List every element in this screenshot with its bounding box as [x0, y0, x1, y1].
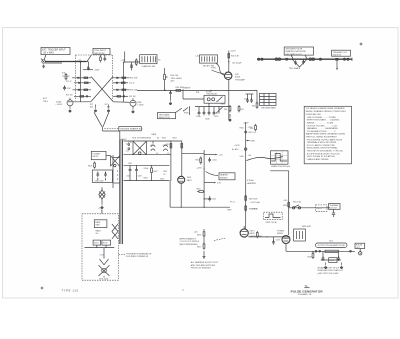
- svg-text:THYRATRON GENERATOR: THYRATRON GENERATOR: [126, 253, 152, 256]
- svg-text:R693: R693: [308, 257, 312, 259]
- svg-text:THERMAL: THERMAL: [329, 204, 338, 207]
- test point TP667: [232, 148, 247, 151]
- svg-text:T601 6.3V WINDINGS: T601 6.3V WINDINGS: [132, 138, 152, 140]
- center tick: [183, 290, 184, 291]
- svg-text:+225V: +225V: [230, 51, 236, 53]
- svg-text:R666: R666: [240, 128, 244, 130]
- +225V node label: [197, 168, 205, 170]
- label box C output multi: [104, 127, 143, 131]
- capacitor C601a: [208, 158, 216, 163]
- svg-text:TP691: TP691: [252, 209, 258, 211]
- svg-text:+100V: +100V: [243, 123, 249, 125]
- primary feed wire: [113, 155, 120, 188]
- svg-text:6DK6: 6DK6: [235, 77, 241, 79]
- svg-text:R695: R695: [330, 260, 335, 262]
- svg-text:C60C: C60C: [214, 116, 219, 118]
- resistor R44 on wire: [176, 87, 185, 91]
- svg-text:R607: R607: [154, 171, 158, 173]
- svg-text:C601 C602: C601 C602: [95, 180, 104, 182]
- wire into relay box: [182, 89, 204, 99]
- svg-text:REGULATED WITH EXTERNAL: REGULATED WITH EXTERNAL: [307, 147, 339, 150]
- resistor R607: [151, 165, 158, 180]
- svg-text:C609: C609: [160, 179, 164, 181]
- cathode spade right tube: [132, 106, 135, 113]
- resistor R676: [197, 230, 205, 237]
- capacitor C11 left: [63, 86, 66, 91]
- svg-text:PULSE AMPLITUDE . . . . . . 2: PULSE AMPLITUDE . . . . . . 2: [307, 130, 336, 133]
- svg-text:R601: R601: [195, 159, 199, 161]
- capacitor C43: [169, 90, 172, 104]
- wire: right plate line: [123, 66, 125, 102]
- svg-text:VOLTAGES & WAVEFORMS OBTAINED: VOLTAGES & WAVEFORMS OBTAINED: [306, 107, 345, 110]
- trig level pot R40: [164, 68, 183, 91]
- inductor L45: [228, 61, 242, 65]
- capacitor C608: [135, 165, 141, 180]
- resistor R63: [250, 124, 256, 131]
- choke L602: [163, 145, 168, 151]
- cathode spade left tube: [69, 106, 72, 112]
- svg-text:R31 470K: R31 470K: [130, 78, 138, 80]
- multivib bottom labels: [90, 106, 110, 108]
- svg-text:WERE OBTAINED UNDER CONDITIONS: WERE OBTAINED UNDER CONDITIONS: [306, 110, 347, 113]
- svg-text:C608: C608: [138, 176, 142, 178]
- svg-text:SCOPE WITH A 53/54 K PLUG-IN: SCOPE WITH A 53/54 K PLUG-IN: [307, 152, 340, 155]
- svg-text:V701 2D21: V701 2D21: [99, 279, 108, 281]
- svg-text:C605: C605: [212, 199, 216, 201]
- coax wire: [45, 62, 86, 64]
- label V601: [187, 177, 193, 182]
- svg-text:C609: C609: [163, 171, 167, 173]
- svg-text:R23 220K: R23 220K: [63, 88, 71, 90]
- svg-text:R25 10K: R25 10K: [66, 95, 73, 97]
- HV rail verticals: [171, 141, 182, 182]
- svg-text:+225V: +225V: [197, 168, 203, 170]
- svg-text:R603: R603: [173, 138, 177, 140]
- row 2 left: resistor R22, cap C22: [66, 81, 91, 84]
- svg-text:RATE: RATE: [95, 221, 101, 224]
- capacitor C667: [244, 130, 255, 135]
- svg-text:C678: C678: [276, 239, 280, 241]
- text block supply note: [191, 261, 219, 269]
- svg-text:6.3V AC: 6.3V AC: [247, 179, 255, 182]
- svg-text:SEE PARTS LIST: SEE PARTS LIST: [285, 53, 302, 56]
- svg-text:5W: 5W: [166, 144, 169, 146]
- row 1 right: R31 C31: [113, 77, 138, 80]
- wire into core top: [103, 131, 120, 139]
- rate divider network: [195, 107, 229, 121]
- svg-text:UNIT. PROBE IS 10X ATTEN.: UNIT. PROBE IS 10X ATTEN.: [307, 155, 336, 158]
- tube V24B: [113, 98, 136, 106]
- svg-text:SW60: SW60: [221, 104, 226, 106]
- svg-text:R605: R605: [197, 189, 201, 191]
- resistor R674: [245, 204, 259, 211]
- svg-text:CHARGE: CHARGE: [183, 87, 191, 90]
- +225V arrow right: [121, 60, 125, 66]
- svg-text:WAVEFORMS WERE OBTAINED USING: WAVEFORMS WERE OBTAINED USING: [306, 133, 346, 136]
- annotation thyratron: [119, 253, 152, 259]
- texts left of line section: [251, 202, 261, 211]
- svg-text:RISETIME LESS THAN 0.01: RISETIME LESS THAN 0.01: [318, 269, 344, 272]
- svg-text:ADJ: ADJ: [171, 80, 175, 83]
- capacitor C605: [208, 196, 216, 201]
- V converge wires: [94, 112, 109, 131]
- svg-text:R46: R46: [224, 109, 227, 111]
- heater band upper: [124, 138, 182, 155]
- svg-text:C32 47: C32 47: [129, 83, 135, 85]
- series regulator V673: [240, 226, 248, 237]
- svg-text:V24A: V24A: [56, 101, 62, 104]
- svg-text:R21 470K: R21 470K: [62, 76, 70, 78]
- svg-text:C22 47: C22 47: [66, 81, 72, 83]
- svg-text:+225: +225: [77, 60, 81, 62]
- pot R667: [246, 140, 255, 143]
- junction node: [204, 198, 210, 199]
- label C609: [163, 171, 167, 176]
- band labels: [126, 143, 169, 154]
- pointer to heater box: [206, 172, 218, 176]
- plus mark bottom-left: [41, 287, 44, 290]
- svg-text:R602: R602: [162, 138, 166, 140]
- line vertical: [288, 171, 290, 235]
- svg-text:.05: .05: [167, 153, 169, 155]
- svg-text:R667: R667: [251, 140, 256, 142]
- wire delay line to V45: [216, 63, 225, 75]
- cap box J: [92, 170, 112, 182]
- resistor R691: [283, 201, 290, 208]
- svg-text:POWER: POWER: [93, 153, 101, 155]
- svg-text:R701: R701: [94, 243, 99, 245]
- wire box H to primary: [106, 155, 111, 157]
- svg-text:TRIGGER SHAPER B.O.: TRIGGER SHAPER B.O.: [120, 128, 144, 131]
- resistor R11: [62, 73, 67, 81]
- svg-text:+100: +100: [283, 200, 287, 202]
- svg-text:R673 10K: R673 10K: [249, 199, 258, 201]
- svg-text:ALL HEATERS EXCEPT V673: ALL HEATERS EXCEPT V673: [191, 261, 219, 264]
- capacitor C38: [130, 62, 132, 71]
- svg-text:-TRIG 2V/CM: -TRIG 2V/CM: [265, 222, 277, 224]
- resistor R603: [181, 144, 183, 148]
- label V673: [250, 230, 263, 238]
- svg-text:TRIGGER RATE: TRIGGER RATE: [261, 106, 277, 109]
- shield dashed box: [76, 55, 113, 101]
- small box R701: [93, 240, 101, 245]
- connector J1: [41, 59, 45, 64]
- svg-text:SHAPING NETWORK: SHAPING NETWORK: [285, 50, 306, 53]
- resistor R46: [224, 105, 231, 112]
- svg-text:C667 .01: C667 .01: [248, 132, 256, 134]
- title: PULSE GENERATOR: [291, 289, 323, 296]
- row 4 left: resistor R25: [66, 95, 91, 98]
- +415 label: [194, 231, 198, 233]
- ground at connector: [42, 65, 45, 68]
- node: trig in label: [43, 98, 48, 103]
- output network: [272, 237, 280, 245]
- svg-text:TRIG RATE: TRIG RATE: [159, 113, 171, 116]
- svg-text:R26: R26: [90, 106, 93, 108]
- terminal circles: [258, 58, 264, 60]
- resistor R605: [197, 189, 205, 193]
- inline attenuator resistor: [325, 250, 339, 252]
- svg-text:PWR: PWR: [227, 210, 232, 212]
- dashed pilot box: [316, 205, 328, 211]
- svg-text:+225: +225: [121, 60, 125, 62]
- TP labels: [227, 202, 235, 212]
- switch contact cluster: [183, 106, 190, 115]
- +225 arrow: [204, 154, 223, 157]
- svg-text:TYPE 110: TYPE 110: [62, 289, 79, 293]
- type label: [62, 289, 79, 293]
- inline cap C48: [286, 58, 288, 61]
- resistor R601 left: [88, 161, 96, 168]
- resistor R678: [256, 231, 258, 238]
- svg-text:SW601: SW601: [277, 233, 283, 235]
- svg-text:PROVISIONS OUTPUT AMPLITUDE: PROVISIONS OUTPUT AMPLITUDE: [307, 138, 343, 141]
- svg-text:R702: R702: [103, 243, 108, 245]
- svg-text:NETWORK: NETWORK: [94, 53, 105, 55]
- label box G trig out: [332, 50, 351, 56]
- svg-text:RATE: RATE: [152, 133, 158, 136]
- label 50ohm: [329, 241, 333, 243]
- svg-text:C668: C668: [240, 156, 244, 158]
- VR network box: [294, 226, 311, 241]
- svg-text:C61: C61: [244, 99, 247, 101]
- label box special: [219, 173, 235, 180]
- svg-text:TP 0.1: TP 0.1: [230, 202, 235, 204]
- primary winding cross: [111, 156, 120, 167]
- grid stopper labels: [90, 104, 108, 106]
- T network grounds: [324, 263, 342, 269]
- svg-text:+415: +415: [194, 231, 198, 233]
- svg-text:C607: C607: [126, 176, 130, 178]
- svg-text:+100V: +100V: [234, 145, 240, 147]
- svg-text:C607: C607: [128, 163, 132, 165]
- tube V693: [282, 236, 290, 244]
- annotation output: [318, 267, 344, 275]
- row 3 right: R33: [113, 89, 138, 92]
- svg-text:TRIG SHAPE: TRIG SHAPE: [289, 67, 301, 70]
- resistor R677: [197, 242, 205, 249]
- thyratron V701: [99, 259, 110, 281]
- TP45 pointer: [211, 68, 224, 74]
- rectifier column labels: [162, 138, 177, 146]
- resistor R602: [170, 144, 172, 148]
- label box thermal: [329, 204, 341, 218]
- svg-text:R47: R47: [241, 109, 244, 111]
- small box R702: [102, 240, 111, 245]
- tube V45: [225, 72, 232, 79]
- svg-text:+225V: +225V: [248, 127, 254, 129]
- label box P output amplitude: [316, 243, 348, 247]
- svg-text:GIVEN BELOW:: GIVEN BELOW:: [306, 114, 322, 116]
- svg-text:TRIG AMP: TRIG AMP: [235, 78, 246, 81]
- svg-text:B+ ADJ: B+ ADJ: [232, 148, 238, 151]
- svg-text:R45 3.3K: R45 3.3K: [231, 55, 240, 57]
- wire top right of multi: [124, 52, 140, 63]
- +100V arrow top: [83, 66, 100, 72]
- label box: EXT TRIGGER INPUT: [41, 47, 70, 54]
- capacitor C607: [126, 165, 131, 180]
- svg-text:AT AMPLITUDE OF 50V: AT AMPLITUDE OF 50V: [318, 267, 340, 270]
- svg-text:µSEC INTO 50Ω LOAD: µSEC INTO 50Ω LOAD: [318, 272, 339, 275]
- svg-text:TRIG: TRIG: [43, 101, 48, 103]
- output rail from regulator: [248, 236, 289, 237]
- +225V feed arrow: [98, 208, 104, 214]
- svg-text:6AU5: 6AU5: [250, 232, 256, 235]
- svg-text:FROM 6.3V WINDING: FROM 6.3V WINDING: [191, 267, 211, 269]
- label box rate gen: [94, 220, 107, 228]
- label box Q pulse out: [355, 243, 365, 249]
- svg-text:.05: .05: [163, 174, 165, 176]
- text 60 cycle: [96, 230, 102, 236]
- dashed enclosure: [82, 214, 118, 280]
- svg-text:V693 6080: V693 6080: [302, 226, 311, 228]
- svg-text:R58: R58: [196, 92, 199, 94]
- row 3 left: resistor R23: [63, 88, 91, 91]
- label V24A: [55, 101, 63, 107]
- svg-text:OUTPUT PULSE AMPLITUDE: OUTPUT PULSE AMPLITUDE: [318, 244, 346, 247]
- band2 labels: [128, 163, 164, 181]
- grid stopper parts in shield: [100, 55, 102, 63]
- svg-text:RATE: RATE: [96, 230, 102, 233]
- svg-text:HEATER: HEATER: [220, 174, 229, 177]
- resistor R61: [252, 101, 258, 108]
- svg-text:C704: C704: [100, 254, 105, 256]
- cathode spade mid-left: [94, 105, 97, 113]
- tube V24A: [67, 98, 91, 106]
- annotation approx: [180, 237, 227, 246]
- svg-text:FOR RATE OPERATION: FOR RATE OPERATION: [126, 255, 149, 258]
- svg-text:L691 10µH: L691 10µH: [251, 202, 261, 204]
- svg-text:APPROXIMATELY: APPROXIMATELY: [180, 237, 197, 240]
- bus wire in box: [85, 245, 115, 248]
- svg-text:50 V MAX: 50 V MAX: [44, 51, 55, 54]
- label C704: [100, 248, 105, 259]
- winding cross T601a: [128, 141, 146, 154]
- box: termination network: [93, 48, 110, 54]
- svg-text:SLOPE: SLOPE: [206, 92, 213, 94]
- svg-text:INPUT: INPUT: [93, 156, 100, 158]
- svg-text:+100V: +100V: [94, 70, 100, 72]
- long grid wire: [137, 90, 229, 91]
- B+ rail vertical: [182, 150, 204, 208]
- svg-text:CHARGE LINE: CHARGE LINE: [142, 65, 156, 68]
- core tap dots: [117, 170, 118, 179]
- +225V feed: [229, 51, 236, 73]
- svg-text:GEN: GEN: [95, 225, 100, 227]
- svg-text:R677: R677: [197, 247, 201, 249]
- cathode parts below tube: [286, 244, 314, 260]
- label V45: [235, 74, 246, 82]
- svg-text:.005: .005: [248, 155, 251, 157]
- rate network extra labels: [183, 87, 225, 106]
- svg-text:R40 20K: R40 20K: [171, 75, 179, 77]
- svg-text:V673: V673: [250, 230, 256, 232]
- TD pulse network box: [140, 55, 161, 68]
- rate labels: [152, 133, 162, 139]
- svg-text:SW45: SW45: [184, 113, 189, 115]
- svg-text:PILOT LAMPS CONNECTED: PILOT LAMPS CONNECTED: [307, 144, 336, 147]
- svg-text:+GATE 20V/CM 10µS: +GATE 20V/CM 10µS: [271, 165, 291, 168]
- B+ column labels: [240, 127, 254, 158]
- relay box K45: [204, 92, 225, 103]
- svg-text:R691: R691: [283, 205, 287, 207]
- waveform monitor box L: [271, 151, 291, 168]
- capacitor C61 pair: [244, 94, 254, 103]
- cathode wire down: [228, 80, 230, 121]
- svg-text:OUTPUT PULSES . . . . . . 1 µS: OUTPUT PULSES . . . . . . 1 µS: [307, 125, 338, 127]
- svg-text:C601: C601: [212, 159, 216, 161]
- switch box SW60 TRIGGER RATE: [260, 93, 277, 109]
- wire box A to connector: [44, 55, 46, 60]
- filter band lower: [124, 165, 170, 180]
- svg-text:L45 100µH: L45 100µH: [232, 63, 242, 65]
- page edge: [3, 28, 399, 299]
- row 1 left: resistor R21, cap C21: [62, 76, 91, 79]
- +100V label: [234, 145, 240, 147]
- svg-text:TERMINALS WITH RETURNS: TERMINALS WITH RETURNS: [307, 141, 337, 144]
- heater text: [247, 179, 257, 185]
- winding labels: [120, 139, 133, 144]
- svg-text:.05: .05: [156, 153, 158, 155]
- svg-text:SCHEMATIC 1B: SCHEMATIC 1B: [298, 293, 312, 296]
- +100 label: [283, 200, 287, 202]
- termination plug: [335, 58, 338, 70]
- rectifier tube V601: [178, 176, 185, 183]
- spade ground below R46: [229, 114, 232, 121]
- svg-text:50Ω 0.5V: 50Ω 0.5V: [333, 54, 342, 56]
- svg-text:F601 2A: F601 2A: [293, 201, 301, 204]
- svg-text:LINE VOLTAGE . . . . . 117VAC: LINE VOLTAGE . . . . . 117VAC: [307, 116, 337, 119]
- svg-text:HEATERS: HEATERS: [247, 182, 257, 185]
- heavy trig out bus: [257, 58, 352, 60]
- B+ vertical: [245, 122, 247, 229]
- cathode spade mid-right: [107, 105, 110, 113]
- resistor R45: [228, 54, 240, 58]
- label box F pulse shaping: [284, 47, 313, 59]
- connector pair right: [309, 58, 322, 61]
- winding cross in box: [112, 224, 118, 239]
- svg-text:TRIG INPUT GROUNDED. TYPE 545: TRIG INPUT GROUNDED. TYPE 545: [307, 151, 344, 153]
- registration mark: [360, 43, 363, 46]
- choke L601: [150, 142, 155, 152]
- connector P45: [275, 58, 281, 61]
- label box H line input: [91, 151, 106, 159]
- svg-text:R601: R601: [88, 166, 92, 168]
- svg-text:2 VOLTS P-P RIPPLE: 2 VOLTS P-P RIPPLE: [180, 241, 200, 243]
- output rail: [286, 250, 355, 252]
- tek logo mark: [304, 284, 309, 288]
- end terminal: [343, 58, 352, 62]
- svg-text:+225: +225: [218, 154, 222, 156]
- svg-text:SELECTOR: SELECTOR: [159, 117, 171, 119]
- +225V arrow left: [77, 60, 81, 66]
- transformer core T601: [120, 139, 122, 244]
- svg-text:125µF: 125µF: [144, 168, 149, 170]
- cap C12 in shield: [103, 55, 106, 61]
- connector J693: [359, 249, 362, 256]
- delay line box: [196, 55, 218, 68]
- svg-text:50 Ω: 50 Ω: [329, 241, 333, 243]
- svg-text:R676: R676: [197, 234, 201, 236]
- waveform pointer curve: [247, 157, 284, 161]
- relay to row stub: [209, 103, 229, 107]
- fuse F601: [289, 201, 330, 209]
- shaping network parts: [289, 59, 307, 70]
- svg-text:WIRING: WIRING: [220, 177, 228, 179]
- tube output wire: [181, 183, 182, 207]
- svg-text:VARIABLE . . . . . . CALIBRATE: VARIABLE . . . . . . CALIBRATED: [307, 127, 339, 130]
- resistor R47: [238, 105, 244, 112]
